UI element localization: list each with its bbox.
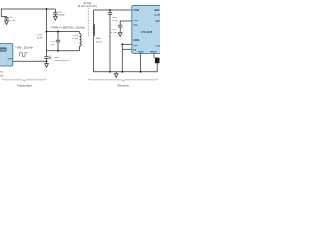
ground (OUT node) [45,61,49,67]
wire tank top [47,31,80,33]
svg-text:CVCC: CVCC [111,29,117,31]
svg-text:BAT: BAT [155,9,161,12]
receiver IC U2 LTC4126 [132,5,163,53]
wire VIN rail [1,9,55,17]
svg-text:CTX: CTX [37,35,43,37]
svg-text:100 µF: 100 µF [58,14,65,16]
svg-text:WE: WE [54,57,59,59]
svg-text:1 nF: 1 nF [50,44,55,46]
svg-text:PROG: PROG [150,51,157,53]
transmitter driver box U1 [0,44,13,66]
badge U1 label [0,47,7,51]
svg-text:ACIN: ACIN [133,9,139,12]
svg-text:LT6990: LT6990 [0,50,6,52]
ground (CVCC) [118,33,122,37]
air gap dashed line [87,8,89,37]
resistor RPROG [154,57,160,64]
capacitor CTX [44,57,48,62]
wire OUT [13,60,47,62]
ground (C2) [54,16,58,20]
svg-text:10 nF: 10 nF [112,20,119,22]
wire RX top [94,10,132,72]
node E (OUT junction) [46,60,48,62]
svg-text:f TANK = f SWITCH ≈ 216 kHz: f TANK = f SWITCH ≈ 216 kHz [50,27,85,30]
wire RPROG to rail [156,64,158,72]
svg-text:760308101303: 760308101303 [54,60,69,62]
inductor LTX [80,32,82,51]
svg-text:NTC: NTC [133,45,138,47]
wire NTC [122,43,132,45]
svg-text:VCC: VCC [133,25,138,27]
capacitor CTANK [56,32,60,51]
svg-text:CRX: CRX [112,17,118,19]
svg-text:AC2: AC2 [156,20,161,23]
node J (GND to rail) [140,71,142,73]
wire C1 jog [1,16,6,19]
svg-text:CLN: CLN [156,46,161,48]
node B (tank top junction) [46,31,48,33]
annotation arrow (coil pointer) [49,55,50,59]
capacitor CRX [108,10,112,72]
svg-text:4.7 µF: 4.7 µF [10,20,17,22]
svg-text:4.7 µF: 4.7 µF [111,32,118,34]
svg-text:Transmitter: Transmitter [17,84,32,88]
svg-text:CTK: CTK [50,41,55,43]
ground (RX rail) [114,72,118,78]
svg-text:OUT: OUT [8,58,13,60]
capacitor C2 [53,9,57,16]
svg-text:f SW ≈ 216 kHz: f SW ≈ 216 kHz [16,47,34,50]
svg-text:Receiver: Receiver [118,84,130,88]
svg-text:LRX: LRX [96,38,101,40]
node C (CTANK top) [57,31,59,33]
wire EN [122,48,132,50]
inductor LRX [94,24,95,36]
svg-text:GND: GND [138,51,144,53]
svg-text:CHRG: CHRG [133,40,139,42]
wire coil bottom [47,50,80,52]
square wave glyph [20,53,28,57]
node G (NTC tie) [121,43,123,45]
svg-text:22 nF: 22 nF [37,38,43,40]
svg-text:LDO: LDO [155,15,161,17]
svg-text:7.5 µH: 7.5 µH [72,38,79,40]
capacitor CVCC [118,25,122,32]
svg-text:(2 mm to 5 mm): (2 mm to 5 mm) [78,5,97,8]
node H (CRX bottom) [109,71,111,73]
node F (CRX top) [109,9,111,11]
wire VCC [120,21,132,25]
ground (C1) [5,21,9,25]
wire RX ground rail [94,71,158,73]
svg-text:LTX: LTX [73,35,78,37]
node D (CTANK bottom) [57,50,59,52]
node A (rail junction) [46,8,48,10]
wire NTC/EN pulldown [121,44,123,72]
node I (pulldown to rail) [121,71,123,73]
svg-text:EN: EN [133,50,136,52]
wire riser VIN to tank [46,9,48,57]
capacitor C1 [4,17,8,20]
wire GND pin [140,53,142,71]
wire PROG pin [153,53,155,57]
svg-text:LTC4126: LTC4126 [141,30,153,34]
brace Transmitter [2,79,47,82]
svg-text:22 µH: 22 µH [96,41,102,43]
brace Receiver [89,79,158,82]
svg-text:VCC: VCC [133,20,138,22]
